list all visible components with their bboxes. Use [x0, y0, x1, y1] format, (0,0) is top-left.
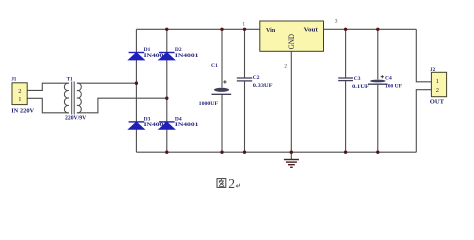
svg-text:IN4001: IN4001: [175, 53, 199, 59]
wire bridge left rail: [135, 29, 137, 152]
capacitor C3: [338, 78, 353, 81]
caption 图 2: [217, 179, 226, 188]
junction D2 cathode / top rail: [165, 28, 168, 31]
svg-text:GND: GND: [287, 34, 296, 49]
connector J1: [12, 83, 27, 105]
wire J1 pin1 to transformer primary bottom: [27, 98, 69, 113]
svg-text:100 UF: 100 UF: [385, 83, 402, 89]
junction C4 / top rail: [376, 28, 379, 31]
wire bridge right rail: [166, 29, 168, 152]
svg-text:Vin: Vin: [266, 27, 276, 34]
ground: [284, 152, 299, 167]
wire J1 pin2 to transformer primary top: [27, 83, 69, 90]
svg-text:C3: C3: [354, 76, 361, 82]
transformer T1: [64, 82, 81, 115]
svg-text:1000UF: 1000UF: [199, 101, 219, 107]
junction regulator GND / bottom rail: [290, 151, 293, 154]
svg-text:0.1UF: 0.1UF: [352, 84, 370, 90]
wire C4 vertical: [377, 29, 379, 152]
capacitor C4 (electrolytic): [368, 75, 388, 84]
svg-text:Vout: Vout: [304, 26, 319, 33]
junction C1 / top rail: [220, 28, 223, 31]
capacitor C1 (electrolytic): [212, 80, 232, 94]
svg-text:C1: C1: [211, 63, 218, 69]
svg-text:1: 1: [242, 21, 245, 27]
junction AC2 / bridge right rail: [165, 97, 168, 100]
junction C4 / bottom rail: [376, 151, 379, 154]
voltage regulator U1: [260, 21, 324, 51]
svg-text:2: 2: [284, 64, 287, 70]
wire regulator gnd down to bottom rail: [290, 51, 292, 152]
diode D3: [129, 122, 145, 129]
junction C3 / bottom rail: [344, 151, 347, 154]
wire secondary bottom to bridge right node: [77, 98, 167, 113]
svg-text:2: 2: [436, 87, 439, 94]
svg-text:0.33UF: 0.33UF: [253, 83, 273, 89]
connector J2: [431, 72, 446, 96]
junction C3 / top rail: [344, 28, 347, 31]
junction C2 / bottom rail: [243, 151, 246, 154]
svg-text:IN 220V: IN 220V: [11, 108, 34, 115]
svg-text:T1: T1: [67, 76, 73, 82]
svg-text:J2: J2: [430, 67, 436, 73]
wire top rail to J2 pin1: [416, 29, 431, 82]
wire secondary top to bridge left node: [77, 82, 136, 84]
junction D4 anode / bottom rail: [165, 151, 168, 154]
wire top rail: [136, 28, 416, 30]
diode D1: [129, 53, 145, 60]
diode D4: [159, 122, 175, 129]
svg-text:3: 3: [335, 18, 338, 24]
capacitor C2: [237, 78, 252, 81]
junction C2 / regulator Vin / top rail: [243, 28, 246, 31]
junction AC1 / bridge left rail: [135, 82, 138, 85]
svg-text:C4: C4: [385, 76, 392, 82]
svg-text:OUT: OUT: [430, 99, 445, 106]
svg-text:2: 2: [18, 88, 21, 95]
wire J2 pin2 to bottom rail: [416, 90, 431, 153]
svg-text:C2: C2: [253, 75, 260, 81]
diode D2: [159, 53, 175, 60]
svg-text:220V/9V: 220V/9V: [65, 114, 87, 121]
svg-text:1: 1: [18, 96, 21, 103]
wire C1 vertical: [221, 29, 223, 152]
svg-text:2: 2: [228, 176, 235, 191]
wire bottom rail: [136, 151, 416, 153]
wire C2 vertical: [244, 29, 246, 152]
junction C1 / bottom rail: [220, 151, 223, 154]
wire C3 vertical: [345, 29, 347, 152]
svg-text:J1: J1: [11, 76, 17, 82]
svg-text:1: 1: [436, 78, 439, 85]
svg-text:IN4001: IN4001: [175, 122, 199, 128]
